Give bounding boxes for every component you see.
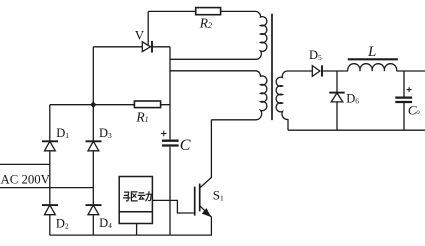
svg-text:C: C xyxy=(180,137,191,154)
svg-text:V: V xyxy=(135,28,145,43)
svg-text:R1: R1 xyxy=(135,109,148,124)
svg-text:S1: S1 xyxy=(213,187,224,202)
svg-text:D5: D5 xyxy=(309,48,322,62)
svg-text:D2: D2 xyxy=(56,216,69,230)
svg-text:D1: D1 xyxy=(56,126,69,140)
svg-text:D3: D3 xyxy=(99,126,112,140)
svg-text:R2: R2 xyxy=(199,15,212,30)
svg-text:D4: D4 xyxy=(99,216,112,230)
svg-text:D6: D6 xyxy=(346,92,359,106)
svg-text:L: L xyxy=(367,44,376,60)
svg-text:AC 200V: AC 200V xyxy=(1,173,51,187)
svg-text:o: o xyxy=(416,108,420,116)
